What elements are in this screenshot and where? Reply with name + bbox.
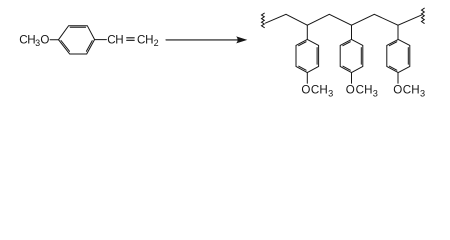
svg-text:OCH3: OCH3 (346, 83, 378, 98)
svg-text:CH3O: CH3O (19, 33, 49, 48)
svg-text:OCH3: OCH3 (393, 83, 425, 98)
ring1 double bond inner, lower-left (299, 66, 306, 70)
bond ring1 to OCH3 (306, 73, 308, 84)
bond backbone CH to ring 1 (306, 25, 308, 39)
benzene ring (reactant, para-substituted) (59, 26, 95, 54)
pendant benzene ring 2 (340, 39, 363, 72)
bond O to ring C1 (50, 39, 58, 41)
ring1 double bond inner, upper-left (299, 42, 307, 46)
vinyl double bond C=C (two bars) (127, 37, 135, 39)
svg-text:OCH3: OCH3 (301, 83, 333, 98)
svg-text:CH: CH (107, 33, 123, 46)
pendant benzene ring 1 (296, 39, 319, 72)
svg-text:CH2: CH2 (137, 33, 159, 48)
bond ring2 to OCH3 (351, 73, 353, 84)
ring3 double bond inner, lower-left (389, 66, 396, 70)
reaction arrow shaft (166, 39, 240, 41)
double bond inner line, bottom-left C1=C6 (61, 41, 70, 52)
bond backbone CH to ring 2 (351, 25, 353, 39)
ring3 double bond inner, right (407, 48, 409, 65)
double bond inner line, top edge C2=C3 (70, 26, 85, 28)
bond ring3 to OCH3 (397, 73, 399, 84)
double bond inner line, bottom-right C4=C5 (86, 41, 92, 52)
left chain-end squiggle (262, 13, 265, 27)
ring2 double bond inner, right (360, 48, 362, 65)
ring3 double bond inner, upper-left (389, 42, 397, 46)
ring2 double bond inner, upper-left (343, 42, 351, 46)
ring2 double bond inner, lower-left (343, 66, 350, 70)
bond ring C4 to vinyl CH (95, 39, 107, 41)
ring1 double bond inner, right (316, 48, 318, 65)
polymer backbone zigzag (266, 14, 422, 25)
pendant benzene ring 3 (387, 39, 410, 72)
bond backbone CH to ring 3 (397, 25, 399, 39)
right chain-end squiggle (422, 8, 425, 23)
reaction arrow head (236, 36, 247, 43)
